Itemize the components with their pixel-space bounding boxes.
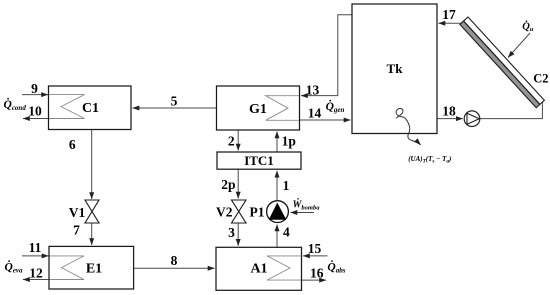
svg-text:2p: 2p <box>221 177 235 192</box>
svg-text:4: 4 <box>283 224 290 239</box>
svg-text:10: 10 <box>28 104 42 119</box>
svg-text:6: 6 <box>69 137 76 152</box>
svg-text:Q̇u: Q̇u <box>522 20 534 33</box>
svg-text:9: 9 <box>31 81 38 96</box>
svg-text:V2: V2 <box>216 205 233 220</box>
svg-text:V1: V1 <box>69 205 86 220</box>
svg-text:1p: 1p <box>282 134 296 149</box>
svg-text:Tk: Tk <box>387 61 404 76</box>
svg-text:18: 18 <box>442 104 456 119</box>
svg-text:14: 14 <box>308 106 322 121</box>
svg-text:11: 11 <box>29 240 42 255</box>
svg-text:Q̇eva: Q̇eva <box>5 260 24 275</box>
svg-text:Q̇cond: Q̇cond <box>4 97 27 112</box>
svg-text:7: 7 <box>73 223 80 238</box>
svg-text:E1: E1 <box>86 262 102 277</box>
svg-text:13: 13 <box>306 83 320 98</box>
svg-text:8: 8 <box>171 253 178 268</box>
svg-text:2: 2 <box>228 134 235 149</box>
svg-text:C1: C1 <box>82 101 99 116</box>
svg-text:Ẇbomba: Ẇbomba <box>293 198 321 212</box>
svg-text:G1: G1 <box>249 102 267 117</box>
svg-text:P1: P1 <box>250 205 265 220</box>
svg-text:17: 17 <box>442 7 456 22</box>
svg-text:12: 12 <box>29 266 43 281</box>
svg-text:Q̇gen: Q̇gen <box>326 99 345 114</box>
svg-text:ITC1: ITC1 <box>244 153 274 168</box>
svg-text:C2: C2 <box>533 72 548 86</box>
svg-text:3: 3 <box>228 225 235 240</box>
svg-text:(UA)T(Ts − Ta): (UA)T(Ts − Ta) <box>408 155 451 165</box>
svg-text:16: 16 <box>310 266 324 281</box>
svg-text:A1: A1 <box>250 262 267 277</box>
svg-text:5: 5 <box>171 94 178 109</box>
svg-text:1: 1 <box>283 178 290 193</box>
svg-text:15: 15 <box>308 241 322 256</box>
svg-text:Q̇abs: Q̇abs <box>327 260 345 275</box>
